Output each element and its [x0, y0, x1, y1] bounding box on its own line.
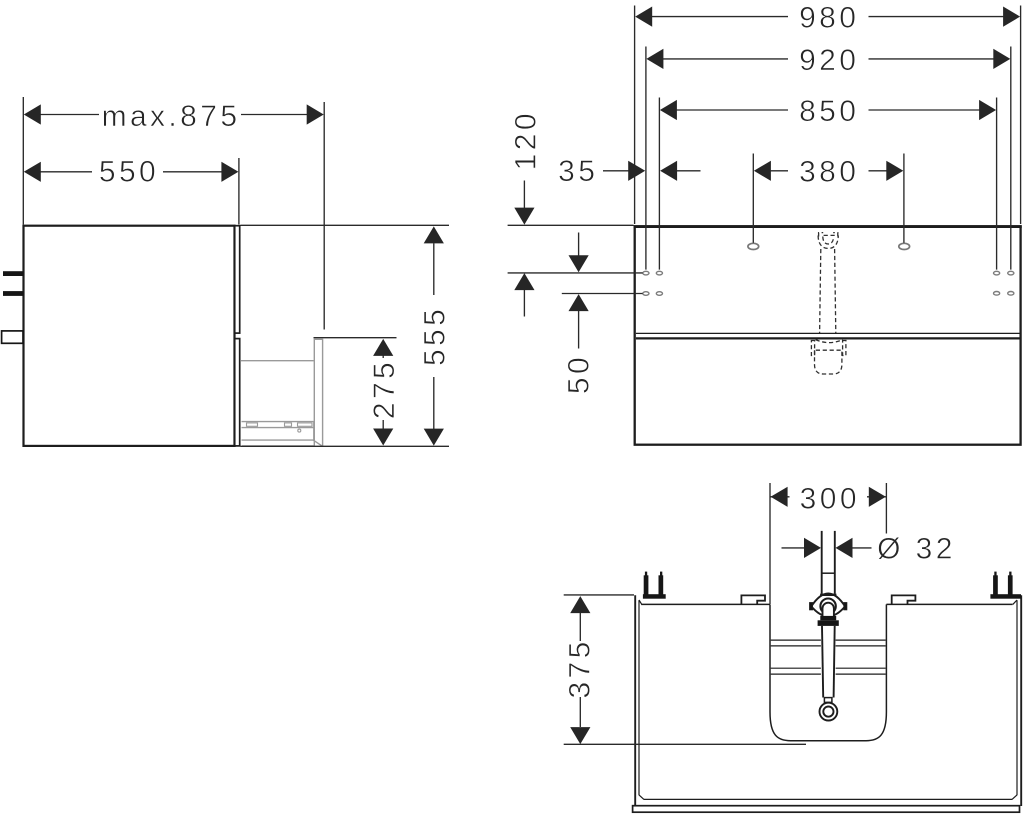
plan top edge right segment [886, 603, 1012, 605]
drawer front bottom diagonal [313, 440, 322, 446]
svg-text:50: 50 [563, 354, 596, 394]
ext line left (max875/550) [22, 97, 24, 225]
arrow 120 up [514, 273, 534, 290]
pipe cap at wall line [820, 594, 836, 596]
arrow 380 right [886, 161, 903, 181]
dim line 850 [677, 109, 789, 111]
arrow 300 left [771, 487, 788, 507]
ext line right max875 [323, 102, 325, 330]
arrow 300 right [869, 487, 886, 507]
drawer bottom edge [242, 445, 314, 447]
locking nut upper [820, 616, 836, 620]
trap cup [815, 350, 842, 374]
extended drawer (gray) group [241, 339, 323, 446]
trap left ear [811, 341, 814, 356]
dims of plan view [564, 483, 887, 744]
arrow 550 left [24, 162, 41, 182]
lower drawer front edge (side view, double line) [235, 339, 240, 446]
svg-text:35: 35 [558, 155, 598, 188]
dim line 980 [652, 16, 788, 18]
drain pipe (plan, above box) [820, 531, 836, 595]
side mounting holes left [643, 271, 663, 295]
drawer front panel (gray double line) [314, 339, 322, 446]
300 arrow cross lines [770, 496, 789, 498]
O32 tails [782, 547, 805, 549]
top edge emphasis [634, 225, 1022, 228]
cabinet box (front view) [635, 226, 1021, 444]
bottom-left corner fillet [639, 795, 644, 800]
rail screw circle [298, 429, 301, 432]
svg-text:980: 980 [799, 2, 859, 35]
arrow O32 pointing left [836, 538, 853, 558]
svg-text:300: 300 [800, 483, 860, 516]
275 dim line segments [382, 356, 384, 359]
top ext line (555) [241, 224, 450, 226]
svg-text:555: 555 [419, 306, 452, 366]
upper drawer front edge (side view, double line) [235, 226, 240, 333]
cabinet body (side view) [24, 226, 235, 446]
plan inner left line [638, 600, 640, 795]
svg-text:120: 120 [509, 110, 542, 170]
lower wall bracket (open rectangle) [2, 331, 23, 343]
380 ext lines [752, 154, 754, 243]
arrow 555 top [424, 226, 444, 243]
ext line right 550 [238, 158, 240, 225]
arrow 850 left [660, 100, 677, 120]
dims of front view [508, 6, 1021, 349]
locking nut lower [818, 620, 839, 626]
ext line 850 left [658, 98, 660, 270]
275 top ext line [314, 337, 397, 339]
drawer side top edge [241, 360, 314, 362]
drawer slide rail lines [242, 421, 314, 423]
arrow max875 left [24, 104, 41, 124]
ext line 850 right [996, 98, 998, 270]
svg-text:550: 550 [99, 155, 159, 188]
arrow 980 right [1003, 7, 1020, 27]
siphon flange (plan) [810, 594, 847, 721]
bottom-right corner fillet [1012, 795, 1017, 800]
flange outer cup [818, 236, 838, 249]
plan bottom inner line [644, 798, 1013, 800]
pipe coupling line [822, 572, 835, 574]
arrow 920 right [993, 49, 1010, 69]
arrow 50 down [569, 255, 589, 272]
flange top inner line [824, 234, 835, 236]
35 dim tails [603, 170, 629, 172]
svg-text:Ø 32: Ø 32 [877, 533, 956, 566]
hole row line B [508, 272, 643, 274]
arrow 120 down [514, 208, 534, 225]
555 dim line segments [433, 243, 435, 295]
flange circle [820, 599, 835, 614]
svg-text:920: 920 [799, 44, 859, 77]
drawer divider thin line [636, 332, 1020, 334]
rail tab left [741, 595, 765, 604]
arrow 35 pointing left [660, 161, 677, 181]
drain connector trapezoid [824, 698, 832, 703]
svg-text:max.875: max.875 [102, 100, 241, 133]
side mounting holes right [994, 271, 1014, 295]
arrow 920 left [646, 49, 663, 69]
ext line 980 left [634, 6, 636, 225]
arrow 850 right [979, 100, 996, 120]
left mounting bracket (plan) [643, 572, 666, 599]
arrow 375 up [570, 596, 590, 613]
dim line 920 [663, 58, 788, 60]
pipe below flange [822, 626, 823, 698]
375 bottom ext line [564, 743, 806, 745]
ext line 980 right [1020, 6, 1022, 225]
arrow 375 down [570, 727, 590, 744]
120 dim line lower tail [523, 289, 525, 316]
pipe dashed right [835, 249, 836, 333]
back panel line 4 [771, 673, 886, 675]
svg-text:850: 850 [799, 95, 859, 128]
drawer divider thick line [636, 337, 1020, 339]
flange right nub [844, 603, 847, 610]
top level line A [508, 224, 634, 226]
hidden siphon (dashed) front view [811, 233, 845, 374]
plan inner right line [1016, 600, 1018, 795]
wall bracket pin upper [3, 271, 23, 276]
plan top edge left segment [641, 603, 770, 605]
trap right ear [843, 341, 846, 356]
flange inner cup [823, 237, 834, 245]
plan outer left edge [634, 595, 636, 806]
flange left nub [810, 603, 813, 610]
right mounting bracket (plan) [990, 572, 1021, 599]
pipe arch over flange [823, 603, 834, 617]
back panel line 1 [771, 639, 886, 641]
back panel line 3 [771, 667, 886, 669]
plan top-left corner fillet [639, 600, 642, 604]
380 dim tails [771, 170, 788, 172]
rail tab right [892, 595, 916, 604]
300 ext right [885, 483, 887, 534]
arrow 555 bottom [424, 429, 444, 446]
ext line 920 left [645, 47, 647, 270]
drain outlet inner circle [823, 707, 833, 717]
arrow 550 right [221, 162, 238, 182]
375 top ext line [564, 594, 634, 596]
flange eye outline [811, 594, 845, 617]
bottom ext line (555/275) [241, 445, 450, 447]
arrow 380 left [754, 161, 771, 181]
svg-text:380: 380 [799, 155, 859, 188]
svg-text:275: 275 [368, 359, 401, 419]
120 dim line upper [523, 181, 525, 209]
hole row line C [562, 293, 643, 295]
arrow max875 right [307, 104, 324, 124]
pipe dashed left [820, 249, 821, 333]
wall bracket pin lower [3, 291, 23, 296]
dim line max875 [40, 114, 99, 116]
arrow O32 pointing right [804, 538, 821, 558]
300 ext left [769, 483, 771, 604]
back panel line 2 [771, 645, 886, 647]
375 dim line upper [579, 613, 581, 641]
arrow 275 top [373, 339, 393, 356]
drain outlet outer circle [820, 703, 838, 721]
arrow 980 left [635, 7, 652, 27]
arrow 275 bottom [373, 429, 393, 446]
ext line 920 right [1010, 47, 1012, 270]
dim line 550 [40, 171, 92, 173]
375 dim line lower [579, 697, 581, 727]
plan outer right edge [1020, 595, 1022, 806]
dims of side view [23, 97, 449, 446]
50 dim tails [578, 233, 580, 256]
rail detail blocks [247, 423, 258, 426]
faucet hole right [899, 243, 910, 249]
trap nut top arc [816, 340, 843, 343]
arrow 35 pointing right [628, 161, 645, 181]
svg-text:375: 375 [564, 638, 597, 698]
plan top-right corner fillet [1013, 600, 1017, 604]
arrow 50 up [569, 294, 589, 311]
trap nut bottom line [816, 349, 843, 351]
U-shaped cutout [770, 604, 886, 740]
drawer front band (plan bottom) [633, 806, 1020, 813]
flange corner tabs [819, 233, 824, 237]
faucet hole left [748, 243, 759, 249]
